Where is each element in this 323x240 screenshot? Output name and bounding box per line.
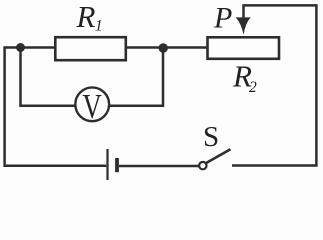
svg-text:P: P	[213, 2, 232, 35]
svg-text:S: S	[203, 121, 219, 153]
svg-text:1: 1	[95, 18, 103, 35]
svg-text:V: V	[83, 86, 103, 125]
svg-text:R: R	[76, 0, 96, 34]
svg-text:2: 2	[249, 79, 257, 96]
